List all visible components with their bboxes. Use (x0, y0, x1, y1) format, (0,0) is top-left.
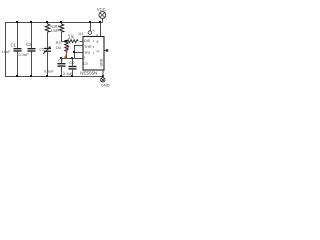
svg-text:NE555N: NE555N (80, 71, 97, 76)
wire R1 branch (47, 22, 49, 77)
svg-text:THR: THR (84, 45, 92, 49)
wire top bus (5, 22, 103, 24)
op-amp U1 (555 timer IC body) (83, 37, 104, 71)
wire C3 branch (61, 58, 63, 77)
ground symbol (101, 78, 105, 82)
wire CV to C4 (72, 58, 74, 77)
wire OUT stub (104, 50, 107, 52)
potentiometer R3 (65, 42, 68, 51)
svg-text:10uF: 10uF (2, 49, 12, 54)
svg-text:1k: 1k (56, 28, 60, 32)
svg-text:C2: C2 (26, 42, 32, 47)
svg-text:C4: C4 (69, 61, 74, 65)
svg-text:1k: 1k (68, 35, 75, 41)
svg-text:0.1uF: 0.1uF (44, 70, 54, 74)
wire bottom bus (5, 76, 103, 78)
svg-text:U1: U1 (79, 31, 85, 36)
capacitor C2 (28, 48, 36, 52)
wire VCC pin drop (100, 22, 102, 37)
svg-text:0.1uF: 0.1uF (19, 52, 30, 57)
wire VCC symbol stem (102, 18, 104, 22)
capacitor C4 (69, 66, 77, 70)
svg-text:C1: C1 (11, 43, 17, 48)
svg-text:1M: 1M (56, 46, 61, 50)
OUT pad (106, 49, 108, 51)
resistor R2 (59, 24, 63, 32)
svg-text:O: O (97, 50, 100, 54)
VCC power symbol (99, 12, 106, 19)
wire R2 branch (62, 22, 65, 42)
svg-text:VCC: VCC (97, 7, 106, 12)
wire C1 branch (17, 22, 19, 77)
resistor R1 (45, 24, 49, 32)
node pad R2/pot/1k (65, 40, 68, 43)
capacitor C1 (14, 48, 22, 52)
wire THR/TRI tie (75, 46, 84, 59)
svg-text:C5: C5 (40, 48, 44, 52)
svg-text:GND: GND (101, 83, 110, 88)
svg-text:CV: CV (83, 62, 89, 66)
variable capacitor C5 (44, 48, 51, 52)
capacitor C3 (58, 63, 66, 67)
wire pot bottom to node (61, 52, 84, 59)
svg-text:DIS: DIS (84, 39, 91, 43)
svg-text:R3: R3 (56, 41, 61, 45)
RST bubble pin (88, 31, 92, 35)
junction dots (16, 21, 104, 77)
wire GND stem (102, 70, 104, 78)
wire C2 branch (31, 22, 33, 77)
wire left edge (5, 22, 7, 77)
wire RST pin drop (90, 22, 92, 31)
svg-text:C3: C3 (58, 58, 63, 62)
resistor R4 1k (67, 40, 78, 43)
svg-text:GND: GND (100, 58, 104, 66)
wire 1k to DIS (80, 41, 84, 43)
svg-text:5: 5 (97, 40, 99, 44)
pot wiper arrow (red) (65, 47, 68, 57)
svg-text:TRI: TRI (84, 51, 90, 55)
